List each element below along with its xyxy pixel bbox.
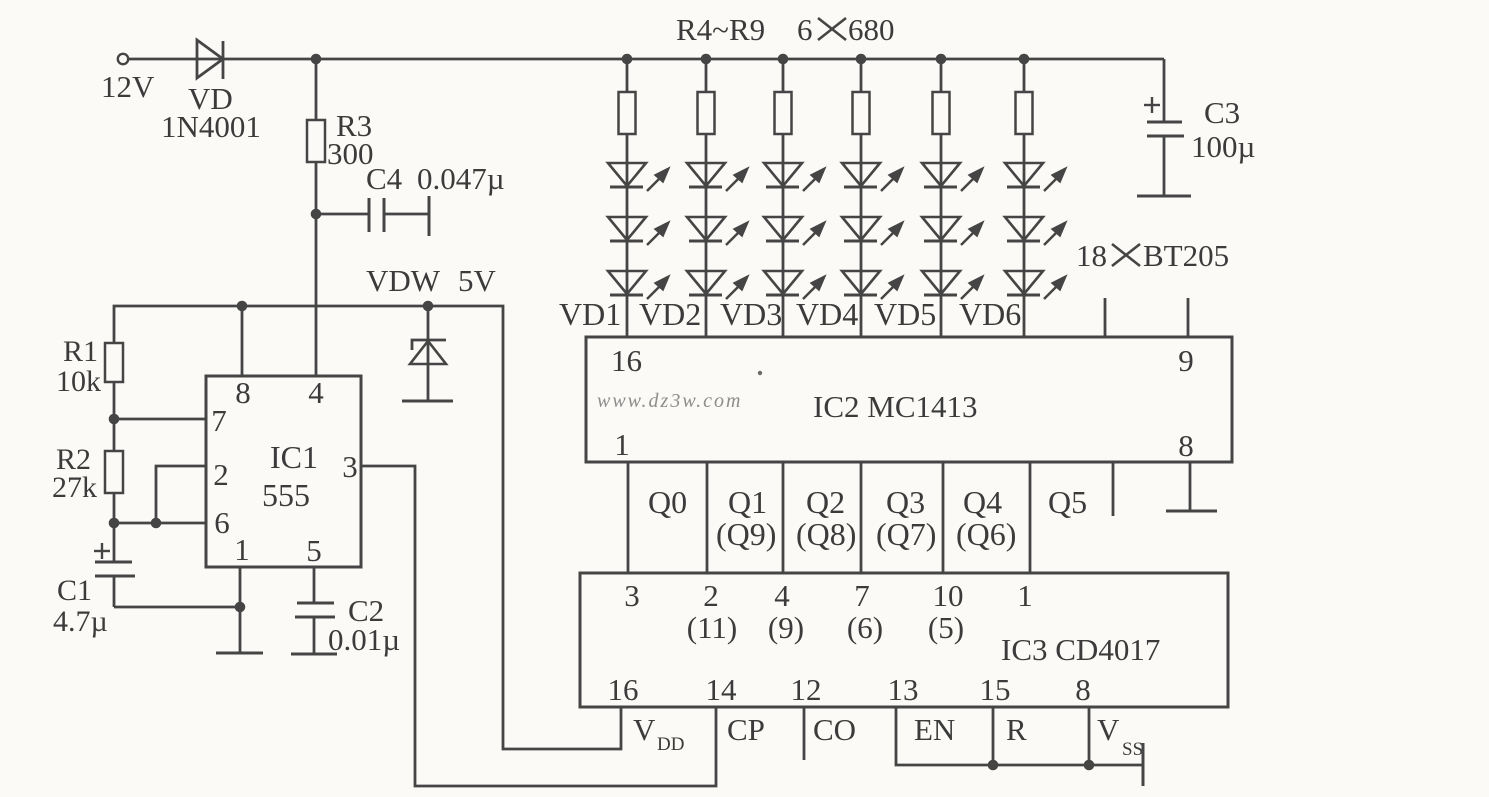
- svg-text:100µ: 100µ: [1191, 129, 1255, 164]
- wire IC2 output 2 to IC3: [706, 462, 709, 573]
- svg-text:680: 680: [848, 12, 895, 47]
- wire R2 to C1 and pin6: [113, 493, 116, 562]
- wire stub below IC2 pin area: [1112, 462, 1115, 516]
- svg-text:(9): (9): [768, 610, 804, 645]
- svg-text:R1: R1: [63, 335, 98, 368]
- IC3 CD4017 box: [580, 573, 1228, 707]
- LED VD4c of column 4: [842, 271, 903, 299]
- wire stub above IC2 right A: [1104, 298, 1107, 337]
- svg-text:VD4: VD4: [796, 296, 858, 332]
- svg-text:6: 6: [214, 505, 230, 540]
- svg-text:1: 1: [1017, 578, 1033, 613]
- svg-text:IC2 MC1413: IC2 MC1413: [813, 389, 978, 424]
- wire pin 8 of IC1 to 5V rail: [241, 306, 244, 376]
- svg-text:www.dz3w.com: www.dz3w.com: [597, 390, 743, 412]
- node top rail column 1: [622, 54, 633, 65]
- LED VD3c of column 3: [764, 271, 825, 299]
- node pin2 junction: [151, 518, 162, 529]
- svg-text:8: 8: [1178, 428, 1194, 463]
- svg-text:R: R: [1006, 712, 1027, 747]
- svg-text:2: 2: [703, 578, 719, 613]
- capacitor C1 4.7u electrolytic: [94, 550, 110, 552]
- svg-text:10: 10: [933, 578, 964, 613]
- resistor R6 680: [775, 92, 792, 134]
- IC2 MC1413 box: [586, 337, 1232, 462]
- LED VD6c of column 6: [1005, 271, 1066, 299]
- LED VD6a of column 6: [1005, 163, 1066, 191]
- svg-text:(Q9): (Q9): [716, 516, 776, 552]
- svg-text:EN: EN: [914, 712, 955, 747]
- svg-text:C3: C3: [1204, 95, 1240, 130]
- wire IC2 output 6 to IC3: [1029, 462, 1032, 573]
- LED VD3b of column 3: [764, 217, 825, 245]
- wire R7 through LED chain to IC2 input: [860, 134, 863, 337]
- wire rail to resistor R7: [860, 59, 863, 92]
- svg-text:Q5: Q5: [1048, 484, 1087, 520]
- LED VD5c of column 5: [922, 271, 983, 299]
- svg-text:(5): (5): [928, 610, 964, 645]
- svg-text:2: 2: [213, 457, 229, 492]
- wire pin 1 of IC1 to ground: [239, 567, 242, 652]
- wire EN pin 13 to reset net: [896, 707, 1143, 765]
- resistor R8 680: [933, 92, 950, 134]
- svg-text:4: 4: [308, 375, 324, 410]
- wire IC2 output 4 to IC3: [860, 462, 863, 573]
- diode VD 1N4001: [197, 58, 1164, 61]
- node top rail column 5: [936, 54, 947, 65]
- wire IC2 output 1 to IC3: [627, 462, 630, 573]
- wire rail to resistor R8: [940, 59, 943, 92]
- svg-text:4: 4: [774, 578, 790, 613]
- svg-text:3: 3: [342, 449, 358, 484]
- wire R4 through LED chain to IC2 input: [626, 134, 629, 337]
- svg-text:Q1: Q1: [728, 484, 767, 520]
- svg-text:BT205: BT205: [1143, 238, 1229, 273]
- svg-text:C1: C1: [57, 574, 92, 607]
- wire R8 through LED chain to IC2 input: [940, 134, 943, 337]
- LED VD1a of column 1: [608, 163, 669, 191]
- svg-text:5: 5: [306, 533, 322, 568]
- svg-text:VD3: VD3: [720, 296, 782, 332]
- LED VD1b of column 1: [608, 217, 669, 245]
- svg-text:(Q8): (Q8): [796, 516, 856, 552]
- LED VD6b of column 6: [1005, 217, 1066, 245]
- resistor R1 10k: [105, 343, 123, 382]
- svg-text:5V: 5V: [458, 263, 497, 298]
- zener diode VDW 5V: [427, 306, 430, 400]
- svg-text:CP: CP: [727, 712, 765, 747]
- svg-text:VDW: VDW: [366, 263, 441, 298]
- wire VSS pin 8 to net: [1088, 707, 1091, 765]
- node top rail column 6: [1019, 54, 1030, 65]
- wire rail to resistor R9: [1023, 59, 1026, 92]
- svg-text:1: 1: [614, 427, 630, 462]
- LED VD5a of column 5: [922, 163, 983, 191]
- node pin8 junction on 5V rail: [237, 301, 248, 312]
- svg-text:7: 7: [211, 403, 227, 438]
- ground for IC2 pin 8: [1166, 510, 1217, 513]
- ground for C2: [291, 653, 337, 656]
- svg-text:Q3: Q3: [886, 484, 925, 520]
- svg-text:IC1: IC1: [270, 439, 318, 475]
- svg-text:(11): (11): [687, 610, 738, 645]
- resistor R5 680: [698, 92, 715, 134]
- wire IC2 output 5 to IC3: [942, 462, 945, 573]
- svg-text:Q4: Q4: [963, 484, 1002, 520]
- terminal 12V input: [118, 54, 128, 64]
- LED VD2b of column 2: [687, 217, 748, 245]
- svg-text:R4~R9: R4~R9: [676, 12, 765, 47]
- capacitor C2 0.01u: [313, 567, 316, 603]
- wire 5V rail from R1 top across to IC3 VDD: [114, 306, 621, 749]
- svg-text:VD1: VD1: [559, 296, 621, 332]
- svg-text:VD2: VD2: [639, 296, 701, 332]
- capacitor C3 100u electrolytic: [1163, 59, 1166, 122]
- wire R9 through LED chain to IC2 input: [1023, 134, 1026, 337]
- wire rail to resistor R6: [782, 59, 785, 92]
- svg-text:8: 8: [1075, 672, 1091, 707]
- svg-text:IC3 CD4017: IC3 CD4017: [1001, 632, 1160, 667]
- capacitor C4 0.047u: [316, 213, 369, 216]
- svg-text:Q0: Q0: [648, 484, 687, 520]
- wire CO pin 12 stub: [803, 707, 806, 760]
- ground bar for EN R VSS net: [1142, 743, 1145, 786]
- wire R1 to R2: [113, 382, 116, 451]
- wire R3 to C4 node and pin 4 of IC1: [315, 162, 318, 376]
- svg-text:15: 15: [980, 672, 1011, 707]
- wire rail to resistor R5: [705, 59, 708, 92]
- resistor R9 680: [1016, 92, 1033, 134]
- LED VD4b of column 4: [842, 217, 903, 245]
- svg-text:9: 9: [1178, 343, 1194, 378]
- op-amp IC1 555 timer box: [206, 376, 361, 567]
- svg-text:1: 1: [234, 532, 250, 567]
- wire IC2 output 3 to IC3: [782, 462, 785, 573]
- node VSS junction: [1084, 760, 1095, 771]
- wire R pin 15 to net: [992, 707, 995, 765]
- LED VD2c of column 2: [687, 271, 748, 299]
- node top rail column 2: [701, 54, 712, 65]
- node pin6 junction left: [109, 518, 120, 529]
- ground for pin 1 of IC1: [216, 652, 263, 655]
- LED VD3a of column 3: [764, 163, 825, 191]
- svg-text:13: 13: [888, 672, 919, 707]
- svg-text:VD6: VD6: [959, 296, 1021, 332]
- svg-text:0.047µ: 0.047µ: [417, 161, 505, 196]
- wire pin 3 of IC1 to CP pin 14 of IC3: [361, 466, 716, 786]
- svg-text:4.7µ: 4.7µ: [53, 605, 108, 638]
- svg-text:SS: SS: [1122, 739, 1143, 760]
- svg-text:14: 14: [706, 672, 738, 707]
- svg-text:(Q6): (Q6): [956, 516, 1016, 552]
- resistor R3: [307, 120, 325, 162]
- svg-text:7: 7: [854, 578, 870, 613]
- svg-text:1N4001: 1N4001: [161, 109, 261, 144]
- LED VD2a of column 2: [687, 163, 748, 191]
- svg-text:27k: 27k: [52, 471, 97, 504]
- wire R5 through LED chain to IC2 input: [705, 134, 708, 337]
- svg-text:18: 18: [1076, 238, 1107, 273]
- svg-text:CO: CO: [813, 712, 856, 747]
- ground for C3: [1137, 195, 1191, 198]
- wire terminal to diode VD: [128, 58, 197, 61]
- wire pin 6 of IC1: [114, 522, 206, 525]
- LED VD4a of column 4: [842, 163, 903, 191]
- svg-text:(6): (6): [847, 610, 883, 645]
- svg-text:VD5: VD5: [874, 296, 936, 332]
- node pin7 junction: [109, 414, 120, 425]
- wire stub above IC2 right B: [1187, 298, 1190, 337]
- node zener junction on 5V rail: [423, 301, 434, 312]
- svg-text:C4: C4: [366, 161, 403, 196]
- svg-text:Q2: Q2: [806, 484, 845, 520]
- svg-text:16: 16: [611, 343, 642, 378]
- svg-text:16: 16: [608, 672, 639, 707]
- wire pin 7 of IC1: [114, 418, 206, 421]
- LED VD5b of column 5: [922, 217, 983, 245]
- wire junction to R3: [315, 59, 318, 120]
- svg-text:12: 12: [791, 672, 822, 707]
- node top rail column 3: [778, 54, 789, 65]
- svg-text:8: 8: [235, 375, 251, 410]
- svg-text:12V: 12V: [101, 69, 155, 104]
- svg-text:V: V: [1097, 712, 1120, 747]
- node junction top rail to R3: [311, 54, 322, 65]
- scan speck: [758, 371, 762, 375]
- wire rail to resistor R4: [626, 59, 629, 92]
- svg-text:0.01µ: 0.01µ: [328, 622, 400, 657]
- wire R6 through LED chain to IC2 input: [782, 134, 785, 337]
- svg-text:V: V: [633, 712, 656, 747]
- wire pin 2 of IC1: [156, 466, 206, 523]
- resistor R4 680: [619, 92, 636, 134]
- svg-text:6: 6: [797, 12, 813, 47]
- svg-text:555: 555: [262, 477, 310, 513]
- node C4 junction: [311, 209, 322, 220]
- node top rail column 4: [856, 54, 867, 65]
- wire IC2 pin 8 to ground: [1189, 462, 1192, 511]
- svg-text:(Q7): (Q7): [876, 516, 936, 552]
- ground for zener VDW: [402, 400, 453, 403]
- node pin1 junction: [235, 602, 246, 613]
- svg-text:3: 3: [624, 578, 640, 613]
- svg-text:10k: 10k: [56, 365, 101, 398]
- svg-text:DD: DD: [657, 734, 684, 755]
- resistor R7 680: [853, 92, 870, 134]
- LED VD1c of column 1: [608, 271, 669, 299]
- resistor R2 27k: [105, 451, 123, 493]
- node R junction: [988, 760, 999, 771]
